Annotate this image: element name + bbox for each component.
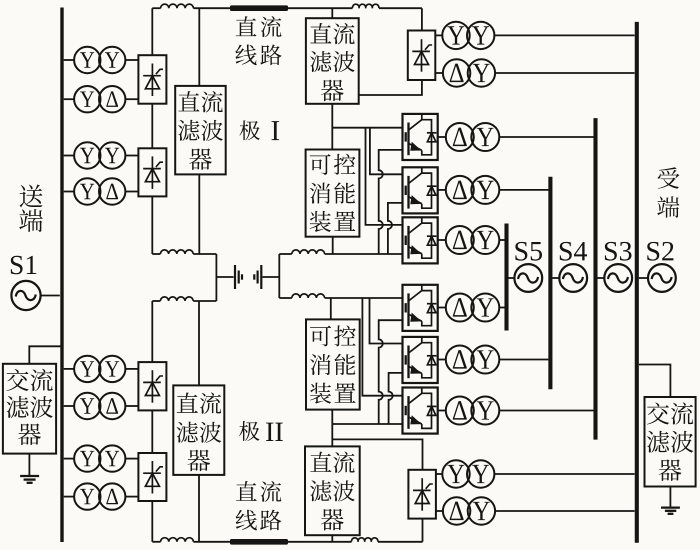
wire: U5 to transformer [438,359,446,361]
wire: bus to transformer T4 [64,191,74,193]
wire: valve V5 bottom to DC filter [359,80,422,95]
label S4 [560,242,587,261]
wire: transformer T3 to valve [125,155,138,157]
wire: pole II DC line [152,538,422,542]
wire: U3 transformer to AC bus [499,239,504,241]
transformer T9 YY [442,22,494,49]
wire: DC filter left bottom to neutral [198,301,200,385]
wire: valve V1 to valve V2 [151,104,153,149]
ground: receiving earth electrode [254,265,261,289]
wire: DC filter left top to pole I line [198,8,200,86]
wire: S3 bus to source [598,277,605,279]
wire: S1 to AC bus [41,295,60,297]
wire: U5 transformer to AC bus [499,359,548,361]
wire: transformer T11 to S2 bus [494,473,634,475]
IGBT converter module U3 [403,217,438,263]
label S3 [605,242,632,261]
wire: DC filter left top to neutral [198,174,200,254]
label: pole I (ji I) [240,120,280,140]
wire: top node rail to IGBT U3 [366,128,403,225]
wire: U2 transformer to AC bus [499,189,548,191]
wire: valve V6 to transformer T12 [436,510,443,512]
energy absorber box bottom (kekong xiaoneng zhuangzhi) [306,319,360,409]
transformer of U2 DY [446,176,500,204]
wire: pole I line to DC filter right [331,8,333,18]
wire: U1 transformer to AC bus [499,136,593,138]
wire: U4 to transformer [438,307,446,309]
wire: sending neutral pole I branch [152,250,216,254]
wire: valve V5 to transformer T9 [435,34,442,36]
transformer T7 YY winding pair [74,445,125,471]
wire: receiving neutral to earth [262,276,279,278]
wire: pole I line to valve V1 [151,8,153,55]
wire: transformer T7 to valve [125,458,138,460]
label: DC line (zhiliu xianlu) bottom [236,481,282,530]
transformer of U5 DY [446,346,500,374]
wire: S2 bus to AC filter right [639,365,671,398]
wire: valve V2 to neutral [151,196,153,254]
AC filter box (jiaoliu lvboqi) left [3,364,56,454]
wire: sending neutral to earth [216,276,233,278]
wire: DC filter right bottom to pole II line [331,535,333,542]
transformer T1 YY winding pair [74,47,125,73]
transformer of U6 DY [446,397,500,425]
wire: bus to transformer T2 [64,98,74,100]
wire: IGBT U1 low side rail to neutral [379,150,403,254]
wire: valve V3 to valve V4 [151,410,153,453]
wire: S2 bus to source [639,277,648,279]
wire: bus to transformer T8 [64,496,74,498]
wire: pole II tap to valve V6 [332,439,422,469]
wire: transformer T6 to valve [125,405,138,407]
wire: neutral to valve V3 [151,301,153,362]
wire: U2 to transformer [438,189,446,191]
node: S4 AC bus [548,177,552,390]
thyristor valve V1 (sending end) [138,55,166,103]
transformer T11 YY [442,460,494,487]
wire: U3 to transformer [438,239,446,241]
wire: pole I tap to IGBT chain top node [332,127,402,129]
wire: valve V6 to pole II line [422,519,424,542]
AC source S2 [648,264,676,292]
wire: IGBT U2 low side rail to neutral [388,203,403,254]
wire: pole I DC line [152,4,422,8]
wire: S5 bus to source [509,277,515,279]
transformer T4 Yd winding pair [74,178,125,204]
wire: transformer T5 to valve [125,368,138,370]
ground: AC filter right [661,487,680,514]
IGBT converter module U4 [403,285,438,331]
wire: receiving neutral tie [278,254,280,298]
transformer T3 YY winding pair [74,142,125,168]
wire: valve V6 to transformer T11 [436,473,442,475]
node: sending-end AC bus [60,8,63,543]
transformer of U4 DY [446,294,500,322]
wire: energy absorber bottom to DC filter [331,410,333,447]
IGBT converter module U2 [403,167,438,213]
wire: bus to transformer T1 [64,59,74,61]
thyristor valve V3 (sending end) [138,362,166,410]
wire: bus to transformer T6 [64,405,74,407]
wire: valve V5 to transformer T10 [435,72,443,74]
wire: receiving neutral pole I branch [279,250,402,254]
DC line impedance bar pole I [230,5,288,11]
label: receiving end (shou-duan) [657,167,679,218]
wire: IGBT U5 low side rail to pole II tap [389,373,403,424]
IGBT converter module U5 [403,337,438,383]
DC filter box left pole II [173,385,224,475]
label S2 [647,242,673,261]
wire: neutral rail to IGBT U5 [370,298,403,344]
IGBT converter module U1 [403,114,438,160]
wire: top node rail to IGBT U2 [370,128,403,175]
AC filter box (jiaoliu lvboqi) right [645,397,696,487]
wire: U6 to transformer [438,410,446,412]
energy absorber box top (kekong xiaoneng zhuangzhi) [306,150,360,237]
wire: transformer T12 to S2 bus [495,510,634,512]
label S1 [11,256,37,274]
wire: valve V4 to pole II line [151,501,153,542]
wire: DC filter right to energy absorber node [331,104,333,150]
AC source S5 [514,264,542,292]
wire: IGBT U4 low side rail to pole II tap [379,320,403,424]
wire: bus to transformer T5 [64,368,74,370]
wire: U4 transformer to AC bus [499,307,504,309]
thyristor valve V6 (receiving pole II) [408,470,436,519]
wire: DC filter left bottom to pole II line [198,475,200,542]
thyristor valve V4 (sending end) [138,453,166,501]
DC filter box right pole I [306,18,359,104]
wire: transformer T8 to valve [125,496,138,498]
node: S2 AC bus [635,22,639,543]
DC filter box right pole II [305,446,360,535]
thyristor valve V2 (sending end) [138,148,166,196]
wire: AC bus to AC filter [29,346,61,364]
transformer T8 Yd winding pair [74,483,125,509]
wire: sending neutral tie [215,254,217,301]
wire: S4 bus to source [552,277,559,279]
wire: pole I line to valve V5 [421,8,423,30]
AC source S4 [559,264,587,292]
label: pole II (ji II) [239,421,283,441]
transformer T10 DY [443,59,495,86]
transformer of U3 DY [446,226,500,254]
wire: transformer T2 to valve [125,98,138,100]
label: sending end (song-duan) [19,185,43,232]
transformer T12 DY [443,497,495,524]
AC source S3 [604,264,632,292]
IGBT converter module U6 [403,388,438,434]
wire: bus to transformer T3 [64,155,74,157]
label S5 [515,242,542,261]
node: S3 AC bus [593,118,597,440]
label: DC line (zhiliu xianlu) top [235,16,281,65]
wire: transformer T9 to S2 bus [494,34,634,36]
transformer of U1 DY [446,123,500,151]
transformer T5 YY winding pair [74,356,125,382]
wire: neutral to energy absorber bottom [330,298,332,319]
wire: bus to transformer T7 [64,458,74,460]
AC source S1 [11,281,40,310]
wire: pole II tap node line [332,423,402,425]
wire: U1 to transformer [438,136,446,138]
transformer T6 Yd winding pair [74,393,125,419]
transformer T2 Yd winding pair [74,86,125,112]
wire: sending neutral pole II branch [152,297,216,301]
ground: sending earth electrode [235,265,242,289]
DC line impedance bar pole II [230,539,288,545]
thyristor valve V5 (receiving pole I) [408,31,436,81]
ground: AC filter left [20,454,39,483]
node: S5 AC bus [504,224,508,331]
wire: transformer T1 to valve [125,59,138,61]
wire: U6 transformer to AC bus [499,410,593,412]
wire: energy absorber top to neutral [332,237,334,254]
wire: transformer T10 to S2 bus [495,72,634,74]
DC filter box left pole I [175,86,226,174]
wire: transformer T4 to valve [125,191,138,193]
wire: receiving neutral pole II branch [279,294,402,298]
wire: neutral rail to IGBT U6 [362,298,402,396]
